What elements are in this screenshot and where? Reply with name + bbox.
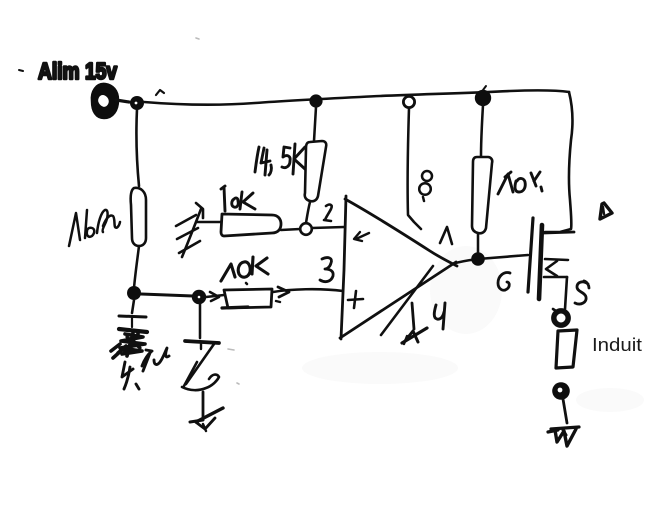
wire arrow to 10k bbox=[197, 221, 224, 224]
wire node to opamp pin2 bbox=[312, 227, 344, 228]
zener bar 2 bbox=[119, 329, 147, 332]
wire blob to junction bbox=[116, 100, 129, 102]
label 10K lower handwritten bbox=[221, 257, 268, 284]
svg-text:Alim 15v: Alim 15v bbox=[38, 58, 117, 84]
label pin8 bbox=[419, 171, 432, 201]
lower terminal ring bbox=[552, 382, 570, 423]
zener link bbox=[131, 318, 133, 327]
opamp plus bbox=[348, 291, 363, 308]
resistor 10k right body bbox=[472, 157, 492, 233]
pin4 stub and arrow bbox=[402, 303, 427, 344]
wire left vertical from J1 bbox=[136, 109, 139, 186]
label pin2 bbox=[324, 205, 332, 221]
mosfet channel bar bbox=[539, 225, 542, 299]
node ring pin2 bbox=[300, 223, 312, 235]
label G bbox=[498, 273, 510, 291]
svg-text:Induit: Induit bbox=[592, 334, 642, 355]
terminal ring S bbox=[553, 309, 568, 325]
wire top rail bbox=[144, 90, 569, 104]
resistor 1k left body bbox=[131, 188, 146, 246]
mosfet source lines and arrow bbox=[544, 259, 568, 309]
LED cathode bar bbox=[185, 341, 219, 349]
junction J7 output/feedback bbox=[471, 252, 485, 266]
zener stub from J5 bbox=[132, 300, 134, 313]
junction J1 bbox=[130, 96, 144, 110]
wire 10k right to J7 bbox=[477, 234, 480, 253]
wire 10K to opamp pin3 with arrow bbox=[273, 287, 343, 297]
label 4,7v handwritten rotated bbox=[122, 348, 169, 389]
opamp output wire bbox=[452, 255, 528, 264]
wire 10k to pin2 node bbox=[281, 229, 300, 230]
wire 14.5k to pin2 node bbox=[306, 202, 310, 223]
mosfet drain line bbox=[544, 232, 574, 233]
label pin4 bbox=[434, 303, 445, 329]
LED tail and ground arrow bbox=[190, 392, 223, 431]
wire right side vertical bbox=[545, 92, 572, 232]
label Induit bbox=[592, 334, 642, 355]
opamp U1 triangle bbox=[340, 196, 457, 339]
junction J4 (10k right tap) bbox=[475, 86, 491, 106]
label pin3 bbox=[320, 258, 333, 282]
wire resistor to J5 bbox=[134, 246, 139, 288]
background smudges bbox=[302, 246, 644, 412]
opamp minus arrow bbox=[354, 232, 369, 241]
power terminal blob bbox=[93, 85, 117, 117]
input arrow with hatches bbox=[176, 203, 203, 257]
label S bbox=[575, 281, 589, 304]
node ring pin8 tap bbox=[403, 96, 414, 107]
zener scribble body bbox=[111, 333, 145, 358]
armature winding Induit body bbox=[556, 330, 577, 368]
label pin1 bbox=[440, 227, 452, 244]
wire pin8 from rail ring bbox=[408, 108, 421, 229]
ground symbol bbox=[548, 427, 579, 446]
faint marks bbox=[196, 38, 239, 384]
label 10k upper handwritten bbox=[221, 186, 255, 211]
label Alim 15v bbox=[38, 58, 117, 84]
label D bbox=[600, 203, 612, 219]
LED stub from J6 bbox=[199, 304, 202, 338]
wire rail to 14.5k bbox=[314, 107, 316, 141]
pin4 diagonal bbox=[381, 266, 433, 335]
resistor 10K lower body bbox=[222, 289, 280, 308]
junction J6 (LED tap) bbox=[192, 290, 206, 304]
wire J6 to 10K resistor bbox=[206, 292, 224, 301]
dot decorative bbox=[19, 70, 23, 71]
resistor 14.5k body bbox=[305, 141, 327, 201]
pen tick on rail bbox=[156, 90, 164, 95]
LED triangle bbox=[182, 344, 219, 390]
wire J5 to J6 bbox=[141, 294, 193, 296]
mosfet gate bar bbox=[528, 218, 533, 292]
resistor 10k upper body bbox=[221, 214, 281, 236]
label 10k right handwritten bbox=[498, 172, 542, 194]
label 1kohm handwritten bbox=[69, 210, 120, 246]
label 14,5k handwritten bbox=[255, 144, 305, 175]
junction J2 (14.5k tap) bbox=[309, 94, 322, 107]
junction J5 bbox=[127, 286, 141, 300]
zener bar 1 bbox=[119, 316, 146, 317]
wire rail J4 to 10k right bbox=[481, 105, 483, 156]
